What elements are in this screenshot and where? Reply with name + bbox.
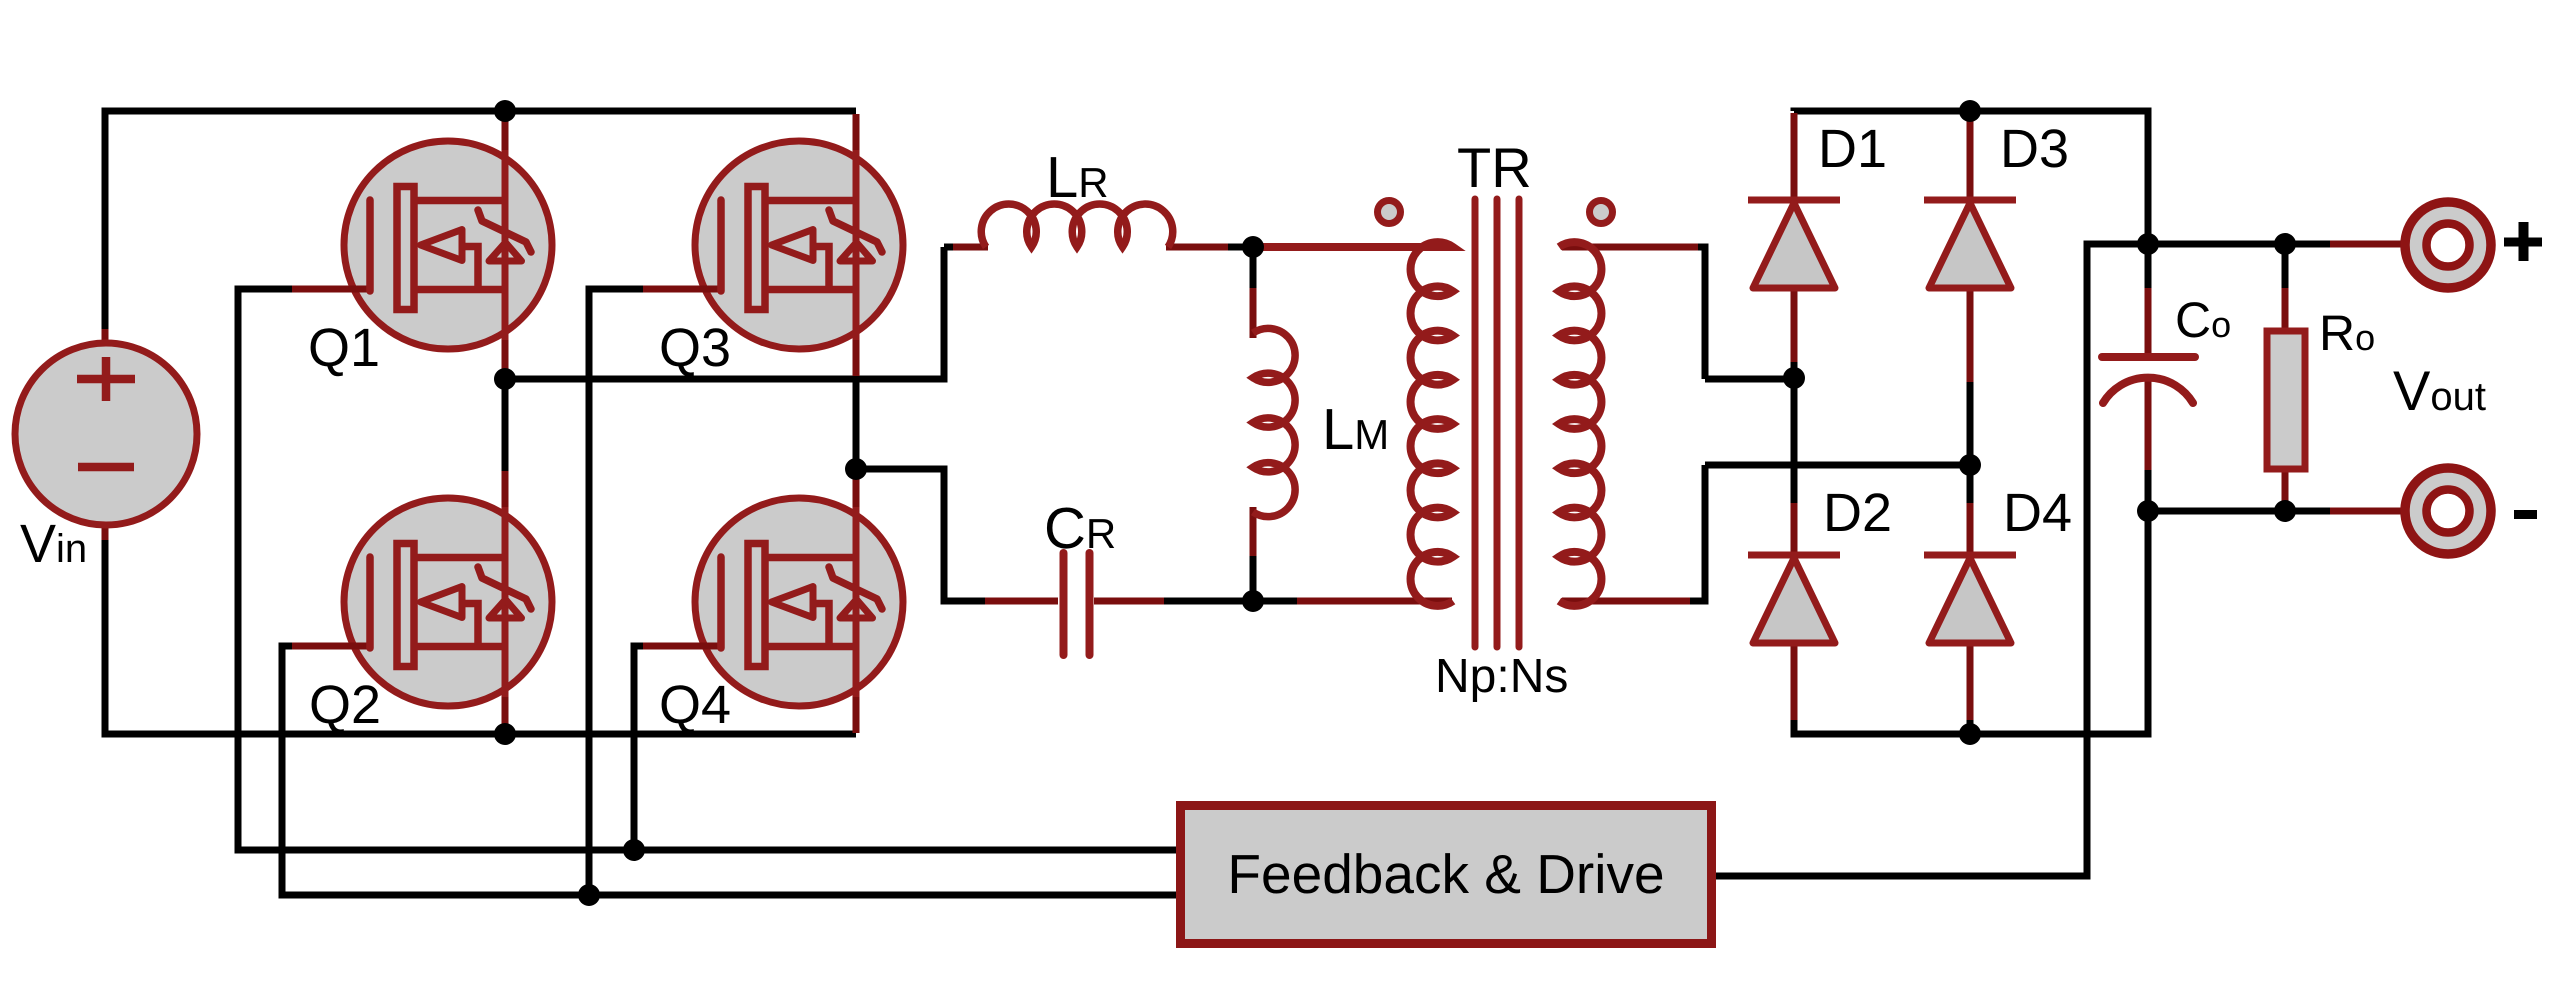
wire Vin bottom lead: [102, 536, 109, 734]
node Q3 gate junction: [578, 884, 600, 906]
wire CR right lead red: [1094, 598, 1164, 605]
svg-text:LM: LM: [1322, 397, 1389, 462]
diode D2: [1748, 555, 1840, 643]
wire minus terminal stub: [2330, 508, 2404, 515]
wire Co bottom black: [2145, 466, 2152, 511]
wire Q1 source to Q2 drain: [502, 372, 509, 472]
wire LM top stub: [1250, 244, 1257, 293]
label plus sign: [2504, 238, 2542, 247]
wire secondary bottom lead red: [1562, 598, 1690, 605]
diode D3: [1924, 200, 2016, 288]
wire LR right to node: [1225, 244, 1298, 251]
wire Co bottom stub: [2145, 379, 2152, 470]
wire Vin top stub: [102, 329, 109, 346]
wire D3 anode stub: [1967, 288, 1974, 382]
node Ro bottom: [2274, 500, 2296, 522]
node Co bottom / minus rail: [2137, 500, 2159, 522]
wire CR right to LM bottom node: [1161, 598, 1299, 605]
wire D4 anode stub: [1967, 643, 1974, 720]
wire primary bottom lead red: [1297, 598, 1452, 605]
wire Q3 gate line: [589, 289, 651, 895]
svg-text:Feedback & Drive: Feedback & Drive: [1227, 843, 1664, 905]
wire CR left lead black: [944, 601, 988, 605]
wire rectifier bottom rail: [1794, 511, 2148, 738]
wire feedback sense line: [1716, 244, 2148, 876]
wire D1 cathode stub: [1791, 113, 1798, 200]
transformer secondary phase dot: [1590, 201, 1613, 224]
wire Q4 gate line: [634, 646, 651, 850]
wire bottom input rail: [102, 731, 857, 738]
wire Ro top stub: [2282, 288, 2289, 331]
wire LM top red stub: [1250, 288, 1257, 338]
diode D4: [1924, 555, 2016, 643]
transformer TR core: [1475, 199, 1519, 647]
capacitor CR: [1064, 553, 1090, 655]
svg-text:CR: CR: [1044, 496, 1116, 561]
transistor Q3 (MOSFET): [643, 114, 903, 376]
wire LM bottom stub: [1250, 556, 1257, 601]
wire Ro top black: [2282, 244, 2289, 292]
wire top input rail: [102, 108, 857, 115]
diode D1: [1748, 200, 1840, 288]
wire Q3 source to Q4 drain: [853, 372, 860, 472]
svg-text:Q2: Q2: [309, 675, 381, 735]
transistor Q2 (MOSFET): [292, 471, 552, 733]
transformer TR secondary winding: [1559, 242, 1601, 606]
wire Ro bottom black: [2282, 466, 2289, 511]
wire D2 anode stub: [1791, 643, 1798, 720]
wire bridge leg A midpoint rail: [505, 247, 944, 379]
svg-text:Q4: Q4: [659, 675, 731, 735]
wire minus rail: [2148, 508, 2285, 515]
wire Q2 gate line: [282, 646, 1176, 895]
svg-text:Np:Ns: Np:Ns: [1435, 650, 1568, 703]
wire Ro bottom stub: [2282, 469, 2289, 502]
svg-text:Q3: Q3: [659, 318, 731, 378]
node secondary top / D1-D2: [1783, 367, 1805, 389]
svg-text:LR: LR: [1046, 145, 1109, 210]
node LR/LM/primary top: [1242, 236, 1264, 258]
svg-text:D1: D1: [1818, 119, 1887, 179]
wire minus terminal lead black: [2285, 508, 2335, 515]
resistor Ro: [2267, 331, 2305, 469]
transformer primary phase dot: [1378, 201, 1401, 224]
wire primary top lead red: [1295, 244, 1452, 251]
wire secondary top lead red: [1562, 244, 1698, 251]
wire Q1 gate line: [238, 289, 1176, 850]
node Q2 source / bottom rail: [494, 723, 516, 745]
svg-text:Vout: Vout: [2393, 359, 2486, 422]
wire D4 anode tail: [1967, 718, 1974, 734]
node B: Q3/Q4 midpoint: [845, 458, 867, 480]
wire plus terminal stub: [2330, 241, 2404, 248]
feedback and drive block: [1181, 806, 1712, 944]
wire plus terminal lead black: [2285, 241, 2335, 248]
wire D1 anode to node: [1791, 356, 1798, 510]
wire secondary bottom lead: [1688, 465, 1970, 601]
capacitor Co: [2102, 357, 2195, 403]
wire LR left black: [944, 244, 956, 251]
label minus sign: [2514, 510, 2537, 519]
node Ro top: [2274, 233, 2296, 255]
svg-text:D3: D3: [2000, 119, 2069, 179]
wire LR right stub: [1166, 244, 1228, 251]
wire Vin top lead: [102, 111, 109, 334]
voltage source Vin: [15, 343, 197, 525]
node D3 cathode / top rail: [1959, 100, 1981, 122]
wire LR left stub: [953, 244, 988, 251]
transistor Q1 (MOSFET): [292, 114, 552, 376]
node Vout plus: [2137, 233, 2159, 255]
node A: Q1/Q2 midpoint: [494, 368, 516, 390]
node D4 anode / bottom rail: [1959, 723, 1981, 745]
node CR/LM/primary bottom: [1242, 590, 1264, 612]
wire D3 cathode stub: [1967, 113, 1974, 200]
transformer TR primary winding: [1253, 242, 1453, 606]
wire D1 anode stub: [1791, 288, 1798, 362]
wire Vin bottom stub: [102, 522, 109, 540]
inductor LR: [981, 204, 1173, 247]
inductor LM: [1253, 328, 1295, 516]
node secondary bottom / D3-D4: [1959, 454, 1981, 476]
wire D2 anode tail: [1791, 718, 1798, 734]
output terminal minus: [2405, 468, 2491, 554]
svg-text:Q1: Q1: [308, 318, 380, 378]
wire D2 cathode stub: [1791, 503, 1798, 555]
transistor Q4 (MOSFET): [643, 471, 903, 733]
svg-text:Ro: Ro: [2319, 305, 2375, 361]
wire Co top black: [2145, 244, 2152, 292]
wire D3 anode to node: [1967, 378, 1974, 510]
svg-text:D2: D2: [1823, 483, 1892, 543]
wire CR left lead red: [985, 598, 1058, 605]
wire secondary top lead: [1695, 247, 1794, 379]
svg-text:Co: Co: [2175, 292, 2231, 348]
node Q4 gate junction: [623, 839, 645, 861]
svg-text:D4: D4: [2003, 483, 2072, 543]
svg-text:TR: TR: [1457, 136, 1532, 199]
wire Co top stub: [2145, 288, 2152, 355]
wire D4 cathode stub: [1967, 503, 1974, 555]
output terminal plus: [2405, 202, 2491, 288]
wire bridge leg B midpoint to CR: [856, 469, 944, 601]
wire plus node to Ro node: [2148, 241, 2285, 248]
wire LM bottom red stub: [1250, 507, 1257, 560]
wire rectifier top rail: [1794, 108, 2148, 245]
node Q1 drain / top rail: [494, 100, 516, 122]
